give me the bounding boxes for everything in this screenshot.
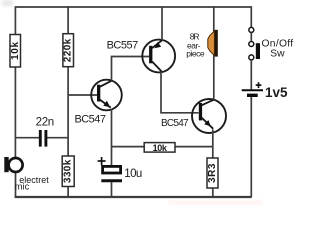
wire Q1 emitter column <box>111 109 113 166</box>
switch slider bar <box>256 43 260 59</box>
wire Q2 emitter to rail <box>161 7 163 41</box>
wire left column lower (mic to rail) <box>15 171 17 198</box>
switch column wire upper <box>250 6 252 27</box>
capacitor C2 10u <box>101 166 122 197</box>
resistor R2 220k <box>63 34 74 67</box>
svg-text:1v5: 1v5 <box>265 85 288 100</box>
battery B1 1v5 <box>242 90 263 95</box>
wire Q1 collector to Q2 base (L) <box>112 57 150 81</box>
svg-text:22n: 22n <box>36 116 54 128</box>
transistor Q1 BC547 <box>91 80 122 111</box>
wire Q3 collector / earpiece column <box>213 6 215 100</box>
svg-text:BC557: BC557 <box>107 39 139 51</box>
wire battery to rail <box>250 97 252 198</box>
electret mic <box>4 157 22 172</box>
resistor R3 330k <box>62 156 74 187</box>
wire 10k row <box>112 146 145 148</box>
plus sign battery <box>256 82 262 88</box>
label electret mic <box>15 175 50 191</box>
label On/Off Sw <box>262 38 294 59</box>
svg-text:330k: 330k <box>63 159 74 183</box>
wire Q3 emitter column <box>212 130 214 159</box>
switch Sw contacts <box>249 27 254 60</box>
svg-text:mic: mic <box>15 182 30 192</box>
wire 3R3 to rail <box>212 188 214 198</box>
wire contact3 to battery <box>250 60 252 90</box>
svg-text:3R3: 3R3 <box>207 163 218 183</box>
svg-text:10u: 10u <box>124 168 142 180</box>
wire 22n branch <box>16 137 40 139</box>
resistor R5 3R3 <box>207 158 218 188</box>
wire left column upper <box>14 6 16 157</box>
svg-text:Sw: Sw <box>270 48 285 59</box>
svg-text:10k: 10k <box>10 41 21 60</box>
wire bottom rail <box>15 196 252 198</box>
capacitor C1 22n <box>40 130 46 147</box>
svg-text:10k: 10k <box>153 143 168 153</box>
svg-text:220k: 220k <box>63 38 74 62</box>
plus sign C2 <box>98 157 106 165</box>
resistor R1 10k <box>10 35 21 68</box>
wire between contact 1 and 2 <box>250 33 252 42</box>
svg-text:BC547: BC547 <box>75 114 106 126</box>
transistor Q3 BC547 <box>192 99 226 133</box>
wire Q1 base <box>68 94 97 96</box>
earpiece 8R <box>208 30 218 57</box>
wire top rail <box>16 6 252 8</box>
resistor R4 10k <box>144 143 175 153</box>
wire node column (220k/330k) <box>67 6 69 197</box>
svg-text:piece: piece <box>186 48 205 58</box>
label 8R ear-piece <box>186 32 205 59</box>
wire Q2 collector to Q3 base (L) <box>161 72 199 113</box>
transistor Q2 BC557 <box>142 40 175 73</box>
svg-text:BC547: BC547 <box>161 118 189 129</box>
